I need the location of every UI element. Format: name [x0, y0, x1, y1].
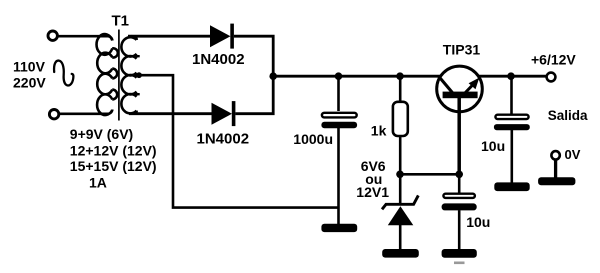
ground G1 — [321, 224, 357, 232]
node C3 rail junction — [507, 72, 515, 80]
svg-text:12+12V (12V): 12+12V (12V) — [70, 143, 157, 159]
wire C2 top lead — [458, 174, 461, 193]
svg-text:+6/12V: +6/12V — [531, 52, 576, 68]
ground G5 — [538, 177, 575, 185]
svg-text:Salida: Salida — [548, 108, 588, 123]
wire primary bottom lead — [58, 110, 112, 114]
input terminal top — [48, 31, 57, 40]
transistor Q1 collector stroke — [439, 76, 453, 93]
transformer core — [118, 30, 120, 121]
transformer T1 secondary winding — [121, 37, 136, 113]
transistor Q1 base lead — [457, 98, 461, 174]
transformer T1 secondary ledges — [130, 56, 140, 94]
capacitor C1 1000u negative plate — [321, 122, 357, 129]
resistor R1 1k body — [393, 102, 408, 136]
wire R1 top lead — [399, 76, 402, 103]
wire primary top lead — [57, 36, 112, 40]
svg-text:TIP31: TIP31 — [443, 42, 481, 58]
svg-text:1N4002: 1N4002 — [192, 51, 245, 68]
svg-text:1N4002: 1N4002 — [197, 130, 250, 147]
transformer T1 secondary top corner — [132, 36, 137, 40]
wire secondary top to diode D1 — [128, 35, 210, 38]
wire center tap return — [130, 75, 340, 207]
wire C3 bottom lead — [510, 130, 513, 183]
wire secondary bottom to diode D2 — [129, 112, 212, 115]
AC source symbol — [54, 61, 73, 86]
svg-text:10u: 10u — [481, 138, 505, 154]
node base junction — [396, 171, 404, 179]
transistor Q1 emitter stroke — [464, 83, 475, 95]
input terminal bottom — [49, 110, 58, 119]
ground G4 — [494, 182, 529, 191]
diode D2 1N4002 — [212, 103, 233, 125]
transistor Q1 circle — [437, 66, 483, 112]
wire C3 top lead — [510, 76, 513, 114]
ground G2 — [382, 249, 419, 258]
node C2 junction — [455, 171, 463, 179]
capacitor C3 10u positive plate — [495, 115, 528, 119]
wire main rail right of transistor — [479, 75, 546, 78]
artifact dash under G3 — [454, 262, 465, 265]
wire base node to C2 node — [400, 173, 459, 176]
svg-text:T1: T1 — [112, 12, 130, 29]
transformer T1 secondary bottom corner — [132, 111, 137, 114]
svg-text:15+15V (12V): 15+15V (12V) — [70, 158, 157, 174]
capacitor C3 10u negative plate — [494, 124, 530, 130]
svg-text:1k: 1k — [371, 123, 387, 139]
ground G3 — [442, 249, 477, 258]
wire C1 top lead — [337, 76, 340, 111]
wire D2 cathode to rail — [235, 77, 273, 114]
wire D1 cathode to rail — [234, 36, 273, 76]
wire C2 bottom lead — [458, 210, 461, 249]
0V terminal — [551, 151, 559, 159]
capacitor C1 1000u positive plate — [322, 113, 357, 118]
0V terminal stem — [554, 160, 557, 179]
svg-text:220V: 220V — [13, 75, 46, 91]
wire main rail left of transistor — [273, 75, 440, 78]
svg-text:9+9V (6V): 9+9V (6V) — [70, 126, 133, 142]
transformer T1 primary winding — [97, 34, 113, 115]
zener D3 anode triangle — [388, 206, 414, 225]
node center tap — [136, 72, 142, 78]
svg-text:12V1: 12V1 — [356, 184, 389, 200]
svg-text:1000u: 1000u — [293, 131, 333, 147]
zener D3 cathode bar — [382, 195, 418, 209]
capacitor C2 10u negative plate — [442, 203, 477, 210]
wire R1 bottom lead — [399, 135, 402, 174]
svg-text:10u: 10u — [466, 214, 490, 230]
svg-text:0V: 0V — [565, 147, 581, 162]
transistor Q1 emitter arrow — [469, 78, 480, 90]
transformer T1 primary joint curls — [112, 48, 118, 99]
wire zener bottom lead — [399, 224, 402, 250]
transistor Q1 base bar — [443, 92, 478, 99]
wire zener top lead — [399, 174, 402, 204]
svg-text:1A: 1A — [89, 174, 107, 190]
diode D1 1N4002 — [210, 25, 231, 47]
node R1 rail junction — [396, 72, 404, 80]
output terminal +6/12V — [547, 73, 556, 82]
node C1 rail junction — [335, 72, 343, 80]
capacitor C2 10u positive plate — [443, 194, 475, 198]
svg-text:110V: 110V — [13, 59, 46, 75]
node rail diode junction — [269, 72, 277, 80]
wire C1 bottom lead — [337, 128, 340, 225]
